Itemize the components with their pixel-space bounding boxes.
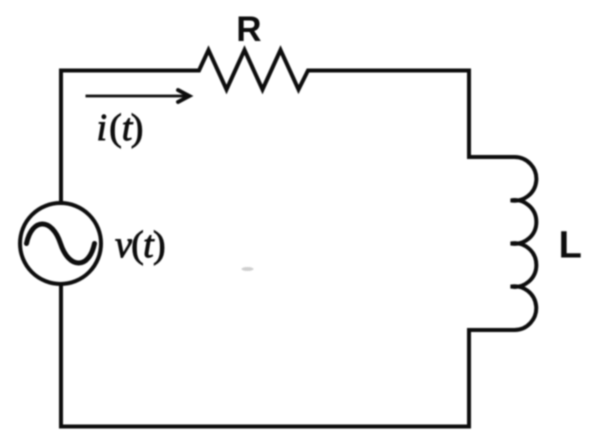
svg-text:v(t): v(t) — [115, 224, 165, 266]
svg-text:i(t): i(t) — [97, 107, 144, 149]
svg-text:R: R — [236, 10, 261, 49]
svg-text:L: L — [559, 225, 582, 267]
